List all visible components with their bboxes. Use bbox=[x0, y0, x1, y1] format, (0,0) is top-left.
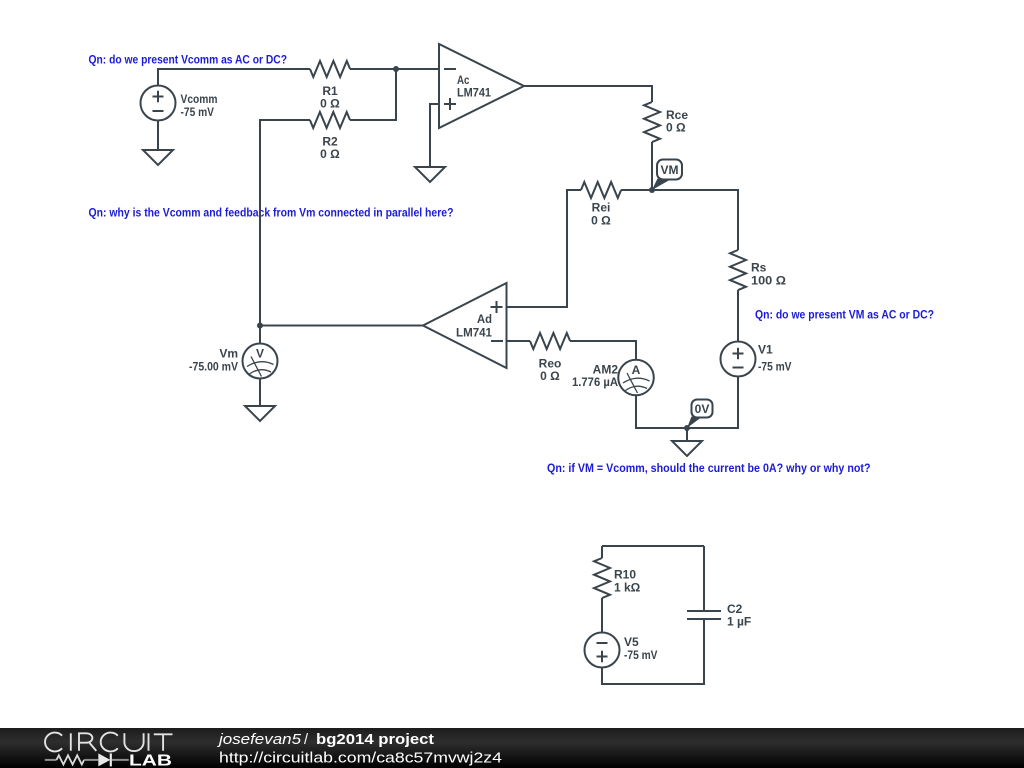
wire op-amp Ac output to Rce bbox=[524, 86, 652, 102]
svg-text:-75.00 mV: -75.00 mV bbox=[189, 360, 238, 374]
svg-text:-75 mV: -75 mV bbox=[624, 648, 658, 662]
svg-text:A: A bbox=[632, 363, 641, 377]
ground G4 bbox=[245, 406, 275, 421]
svg-text:0 Ω: 0 Ω bbox=[591, 214, 611, 228]
svg-text:0 Ω: 0 Ω bbox=[666, 121, 686, 135]
wire Rce to node VM bbox=[651, 142, 653, 190]
wire node A to op-amp minus input bbox=[396, 68, 439, 70]
svg-text:0 Ω: 0 Ω bbox=[320, 97, 340, 111]
logo resistor-diode symbol bbox=[45, 759, 57, 761]
resistor Reo bbox=[530, 333, 570, 383]
resistor R10 bbox=[594, 558, 641, 598]
capacitor C2 bbox=[687, 602, 751, 629]
ground G3 bbox=[672, 441, 702, 456]
wire node A down to R2 bbox=[350, 69, 396, 120]
wire top of RC loop bbox=[602, 545, 704, 547]
svg-text:1 µF: 1 µF bbox=[727, 615, 751, 629]
svg-text:0V: 0V bbox=[695, 402, 710, 416]
wire C2 top to loop top bbox=[703, 546, 705, 611]
resistor R2 bbox=[310, 112, 350, 161]
wire op-amp Ad output to node Vm bbox=[260, 325, 423, 327]
svg-text:R10: R10 bbox=[614, 568, 636, 582]
svg-text:LM741: LM741 bbox=[456, 326, 492, 340]
wire AM2 to node 0V bbox=[636, 395, 687, 428]
resistor Rs bbox=[730, 250, 786, 290]
voltage source V1 bbox=[721, 342, 792, 377]
wire V1 bottom to node 0V bbox=[687, 377, 738, 429]
svg-text:V5: V5 bbox=[624, 635, 639, 649]
svg-text:Rei: Rei bbox=[592, 201, 611, 215]
svg-text:Ad: Ad bbox=[477, 312, 492, 326]
wire op-amp plus input to ground bbox=[430, 104, 439, 167]
svg-text:1 kΩ: 1 kΩ bbox=[614, 581, 641, 595]
voltmeter Vm bbox=[189, 326, 278, 379]
svg-text:-75 mV: -75 mV bbox=[181, 105, 215, 119]
wire Vm to ground bbox=[259, 379, 261, 407]
svg-text:Qn: if VM = Vcomm, should the: Qn: if VM = Vcomm, should the current be… bbox=[547, 463, 871, 475]
node VM junction bbox=[649, 187, 655, 193]
wire Rei left lead down to op-amp Ad plus input bbox=[507, 190, 582, 307]
flag 0V bbox=[687, 400, 713, 429]
logo diode bbox=[98, 753, 110, 766]
svg-text:Qn: do we present VM as AC or: Qn: do we present VM as AC or DC? bbox=[755, 310, 934, 322]
resistor R1 bbox=[310, 61, 350, 111]
wire op-amp Ad minus input to Reo bbox=[507, 340, 531, 342]
svg-text:LAB: LAB bbox=[129, 753, 172, 768]
voltage source V5 bbox=[585, 633, 658, 668]
wire Vcomm bottom to ground bbox=[157, 121, 159, 151]
svg-text:Vcomm: Vcomm bbox=[181, 92, 218, 106]
wire R10 to V5 bbox=[601, 598, 603, 633]
svg-text:http://circuitlab.com/ca8c57mv: http://circuitlab.com/ca8c57mvwj2z4 bbox=[219, 750, 502, 767]
svg-text:bg2014 project: bg2014 project bbox=[316, 732, 434, 748]
svg-text:Qn: why is the Vcomm and feedb: Qn: why is the Vcomm and feedback from V… bbox=[89, 208, 454, 220]
svg-text:LM741: LM741 bbox=[457, 86, 491, 100]
svg-text:V: V bbox=[256, 347, 264, 361]
svg-text:V1: V1 bbox=[758, 343, 773, 357]
op-amp U2 Ad LM741 (mirrored) bbox=[423, 283, 507, 368]
wire Rei right lead to node VM bbox=[621, 189, 652, 191]
svg-text:100 Ω: 100 Ω bbox=[751, 274, 786, 288]
svg-text:1.776 µA: 1.776 µA bbox=[572, 375, 618, 389]
ammeter AM2 bbox=[572, 360, 654, 396]
node 0V junction bbox=[684, 425, 690, 431]
wire Vcomm top to R1 bbox=[158, 69, 310, 86]
wire V5 bottom loop to C2 bbox=[602, 619, 704, 684]
svg-text:Rs: Rs bbox=[751, 261, 767, 275]
flag VM bbox=[652, 160, 682, 191]
wire R2 left to feedback column bbox=[260, 120, 310, 326]
voltage source Vcomm bbox=[141, 86, 218, 121]
resistor Rce bbox=[644, 102, 688, 142]
svg-text:Vm: Vm bbox=[219, 347, 238, 361]
wire R1 to node A bbox=[350, 68, 396, 70]
resistor Rei bbox=[581, 182, 621, 228]
svg-text:Qn: do we present Vcomm as AC: Qn: do we present Vcomm as AC or DC? bbox=[89, 55, 288, 67]
ground G2 bbox=[415, 167, 445, 182]
op-amp U1 Ac LM741 bbox=[439, 44, 524, 128]
svg-text:0 Ω: 0 Ω bbox=[320, 147, 340, 161]
svg-text:josefevan5: josefevan5 bbox=[217, 732, 302, 748]
svg-text:0 Ω: 0 Ω bbox=[540, 369, 560, 383]
wire Reo to ammeter AM2 bbox=[570, 341, 636, 360]
svg-text:-75 mV: -75 mV bbox=[758, 360, 792, 374]
wire R10 top lead bbox=[601, 546, 603, 558]
logo CIRCUIT wordmark (line art) bbox=[45, 733, 172, 752]
wire Rs to V1 bbox=[737, 290, 739, 342]
wire node VM to Rs bbox=[652, 190, 738, 250]
svg-text:VM: VM bbox=[661, 163, 679, 177]
node Vm junction bbox=[257, 323, 263, 329]
wire node 0V to ground bbox=[686, 428, 688, 441]
node A junction bbox=[393, 66, 399, 72]
ground G1 bbox=[143, 150, 173, 165]
